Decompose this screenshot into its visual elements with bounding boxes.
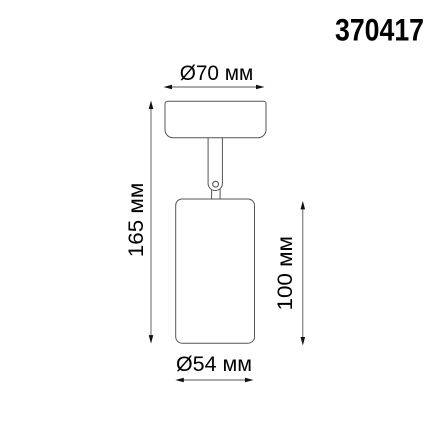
svg-text:Ø70 мм: Ø70 мм (180, 61, 254, 85)
svg-text:370417: 370417 (335, 12, 424, 48)
svg-text:100 мм: 100 мм (273, 236, 297, 311)
svg-text:165 мм: 165 мм (124, 183, 148, 258)
svg-text:Ø54 мм: Ø54 мм (176, 352, 252, 376)
